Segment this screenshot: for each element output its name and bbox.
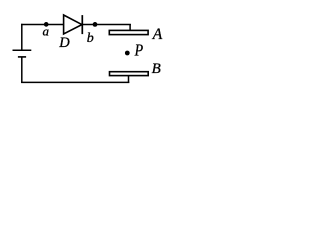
svg-text:A: A <box>152 26 163 43</box>
point P <box>125 51 130 56</box>
wire left vertical lower <box>21 57 23 83</box>
svg-text:B: B <box>152 61 161 77</box>
battery positive plate <box>13 49 32 51</box>
svg-text:a: a <box>43 24 50 39</box>
wire step up to plate B <box>128 75 130 83</box>
svg-text:D: D <box>58 35 70 51</box>
svg-text:b: b <box>87 31 94 46</box>
wire left vertical upper <box>21 24 23 50</box>
plate B <box>110 72 149 76</box>
plate A <box>109 30 148 34</box>
wire top conductor <box>21 24 131 26</box>
wire bottom conductor <box>21 81 129 83</box>
node b <box>93 22 98 27</box>
diode cathode bar <box>81 15 83 34</box>
svg-text:P: P <box>134 41 144 60</box>
diode D triangle <box>64 15 82 34</box>
battery negative plate <box>18 56 26 58</box>
node a <box>44 22 49 27</box>
wire step down to plate A <box>129 24 131 31</box>
